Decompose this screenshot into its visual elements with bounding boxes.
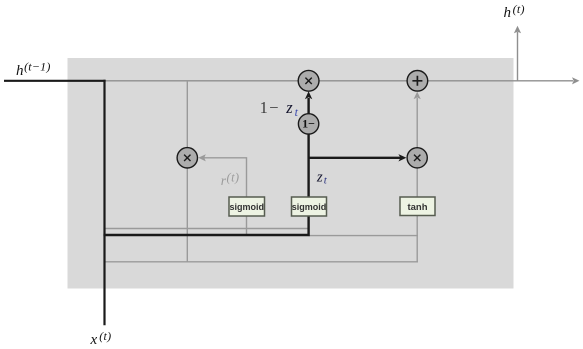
node: left multiply circle (177, 148, 197, 168)
label: x^(t) (90, 329, 112, 348)
svg-text:−: − (269, 98, 278, 117)
svg-text:(t): (t) (99, 329, 111, 343)
svg-text:h: h (16, 63, 24, 79)
gate box: sigmoid (reset gate) (229, 197, 265, 216)
wire: black bottom rail and z vertical (103, 124, 308, 235)
node: 1-minus circle (298, 114, 318, 134)
wire: vertical through left multiply node (186, 81, 188, 262)
node: right multiply circle (407, 148, 427, 168)
wire arrowhead: into left multiply (198, 154, 206, 161)
label: h^(t) (504, 2, 525, 21)
label: 1 - z_t (260, 98, 299, 119)
wire arrowhead: h line right end (572, 77, 580, 84)
svg-text:sigmoid: sigmoid (229, 202, 264, 212)
node: top multiply circle (298, 70, 319, 91)
wire: middle bottom rail to tanh (gray) (309, 235, 418, 237)
svg-text:z: z (285, 98, 293, 117)
gate box: sigmoid (update gate) (292, 197, 327, 216)
wire: main h line (gray, through cell to output arrow) (105, 80, 574, 82)
wire: x^(t) vertical (black) (103, 80, 105, 325)
wire: black arrow from 1-minus to top multiply (307, 98, 309, 120)
wire arrowhead: h^(t) up (514, 26, 521, 34)
svg-text:1−: 1− (302, 117, 315, 131)
wire: upper bottom rail (gray) (105, 228, 309, 230)
cell body box (68, 58, 514, 289)
svg-text:x: x (90, 332, 98, 348)
label: r^(t) (221, 171, 240, 189)
label: z_t (316, 170, 328, 187)
wire: below tanh (416, 216, 418, 263)
wire arrowhead: into add node (414, 92, 421, 100)
wire: below sigmoid1 (246, 216, 248, 236)
wire: black arrow from z line to right multiply (309, 157, 401, 159)
svg-text:h: h (504, 5, 512, 21)
wire: h^(t) output vertical (517, 32, 519, 81)
svg-text:1: 1 (260, 98, 268, 117)
wire arrowhead: into right multiply (398, 154, 406, 161)
wire arrowhead: into top multiply (305, 91, 312, 99)
wire: r gate elbow from sigmoid1 top to left multiply (204, 158, 247, 197)
svg-text:(t): (t) (513, 2, 525, 16)
wire: h^(t-1) input (black) (4, 80, 106, 82)
svg-text:tanh: tanh (407, 202, 427, 213)
wire: lower bottom rail (gray) (105, 261, 418, 263)
svg-text:sigmoid: sigmoid (292, 202, 327, 212)
gate box: tanh (candidate) (400, 197, 435, 216)
label: h^(t-1) (16, 59, 51, 79)
svg-text:(t): (t) (227, 171, 240, 185)
svg-text:z: z (316, 170, 323, 186)
svg-text:(t−1): (t−1) (24, 59, 50, 73)
wire: vertical through tanh and right multiply up to add (416, 98, 418, 197)
node: add circle (407, 71, 428, 92)
